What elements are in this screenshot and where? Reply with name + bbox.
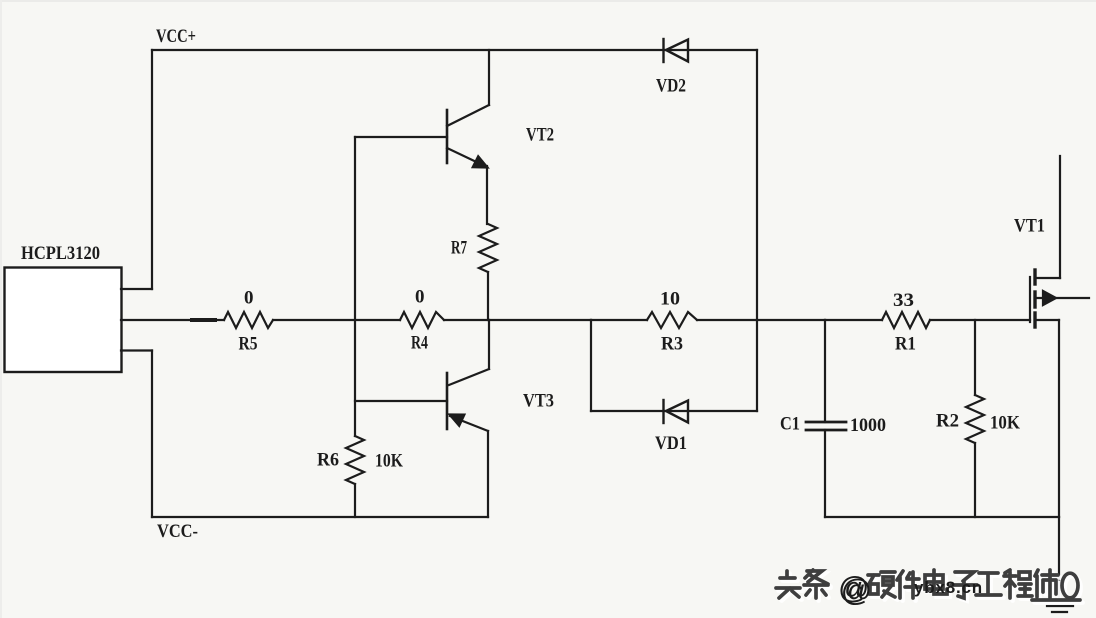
wire R4 to node at x489	[444, 319, 489, 321]
resistor R7	[479, 224, 497, 272]
resistor R2	[966, 320, 984, 517]
svg-text:VT3: VT3	[523, 391, 554, 412]
wire right vertical from VD2 down to VD1 branch	[756, 50, 758, 411]
svg-text:R3: R3	[661, 334, 683, 355]
svg-text:C1: C1	[780, 414, 800, 435]
wire VT2 collector to VCC+ rail	[488, 50, 490, 105]
resistor R1	[882, 312, 930, 328]
svg-text:HCPL3120: HCPL3120	[21, 243, 100, 264]
svg-text:R5: R5	[239, 334, 258, 355]
wire node x489 to VD1 branch	[489, 319, 591, 321]
wire VD1 branch left vertical	[590, 320, 592, 411]
wire pin2 to R5	[121, 319, 224, 321]
wire bottom rail to ground	[1058, 517, 1060, 600]
svg-text:R6: R6	[317, 450, 339, 471]
svg-text:R7: R7	[451, 238, 467, 259]
svg-text:VCC-: VCC-	[157, 521, 198, 542]
diode VD1	[664, 400, 689, 423]
transistor VT2 NPN	[447, 105, 489, 168]
svg-text:R2: R2	[936, 411, 959, 432]
svg-text:R4: R4	[411, 333, 428, 354]
svg-text:VT1: VT1	[1014, 216, 1045, 237]
svg-text:33: 33	[893, 290, 914, 311]
wire VCC+ top rail	[152, 49, 757, 51]
capacitor C1	[806, 320, 846, 517]
wire VD1 branch to R3	[591, 319, 647, 321]
wire VT2 emitter to R7	[486, 166, 488, 224]
wire output node down to VT3 collector	[488, 320, 490, 369]
svg-text:0: 0	[244, 288, 254, 309]
svg-text:R1: R1	[895, 334, 916, 355]
svg-text:0: 0	[415, 287, 425, 308]
transistor VT1 MOSFET	[1030, 270, 1089, 327]
wire left vertical up to VCC+ rail	[151, 50, 153, 289]
wire VT2 base line	[355, 136, 447, 138]
diode VD2	[664, 39, 689, 62]
wire VD1 branch horizontal	[591, 410, 757, 412]
ground	[1042, 601, 1080, 613]
svg-text:@: @	[838, 570, 869, 605]
svg-text:10: 10	[660, 289, 680, 310]
svg-text:10K: 10K	[990, 413, 1020, 434]
wire C1 node to R1	[825, 319, 882, 321]
resistor R3	[647, 312, 697, 328]
svg-text:1000: 1000	[850, 415, 886, 436]
svg-text:10K: 10K	[375, 451, 403, 472]
wire bottom rail right section	[825, 516, 1059, 518]
resistor R4	[400, 312, 444, 328]
wire VT3 base line	[355, 400, 447, 402]
wire pin3 stub	[121, 349, 152, 351]
svg-text:VD1: VD1	[655, 433, 687, 454]
watermark 头条@硬件电子工程师0	[776, 570, 1083, 608]
wire bold overlap segment	[192, 318, 215, 322]
resistor R5	[224, 312, 273, 328]
wire VT1 drain vertical	[1059, 156, 1061, 278]
wire R1 to gate of VT1	[930, 319, 1030, 321]
wire VT3 emitter down to VCC- rail	[487, 431, 489, 517]
wire R3 to C1 node	[697, 319, 825, 321]
svg-text:VD2: VD2	[656, 76, 686, 97]
svg-text:VCC+: VCC+	[156, 26, 196, 47]
wire VCC- bottom rail	[152, 516, 488, 518]
wire VT1 source down to bottom rail	[1058, 320, 1060, 517]
wire pin1 stub	[121, 288, 152, 290]
svg-text:VT2: VT2	[526, 125, 554, 146]
transistor VT3 PNP	[447, 369, 489, 431]
wire base bus vertical x355	[354, 137, 356, 436]
IC U1 HCPL3120 box	[5, 268, 122, 373]
wire left vertical down to VCC- rail	[151, 351, 153, 518]
resistor R6	[346, 436, 364, 484]
wire R6 to VCC- rail	[354, 484, 356, 517]
wire R5 to R4	[273, 319, 400, 321]
wire R7 to output node	[487, 272, 489, 320]
svg-text:ybx8.cn: ybx8.cn	[914, 578, 983, 597]
